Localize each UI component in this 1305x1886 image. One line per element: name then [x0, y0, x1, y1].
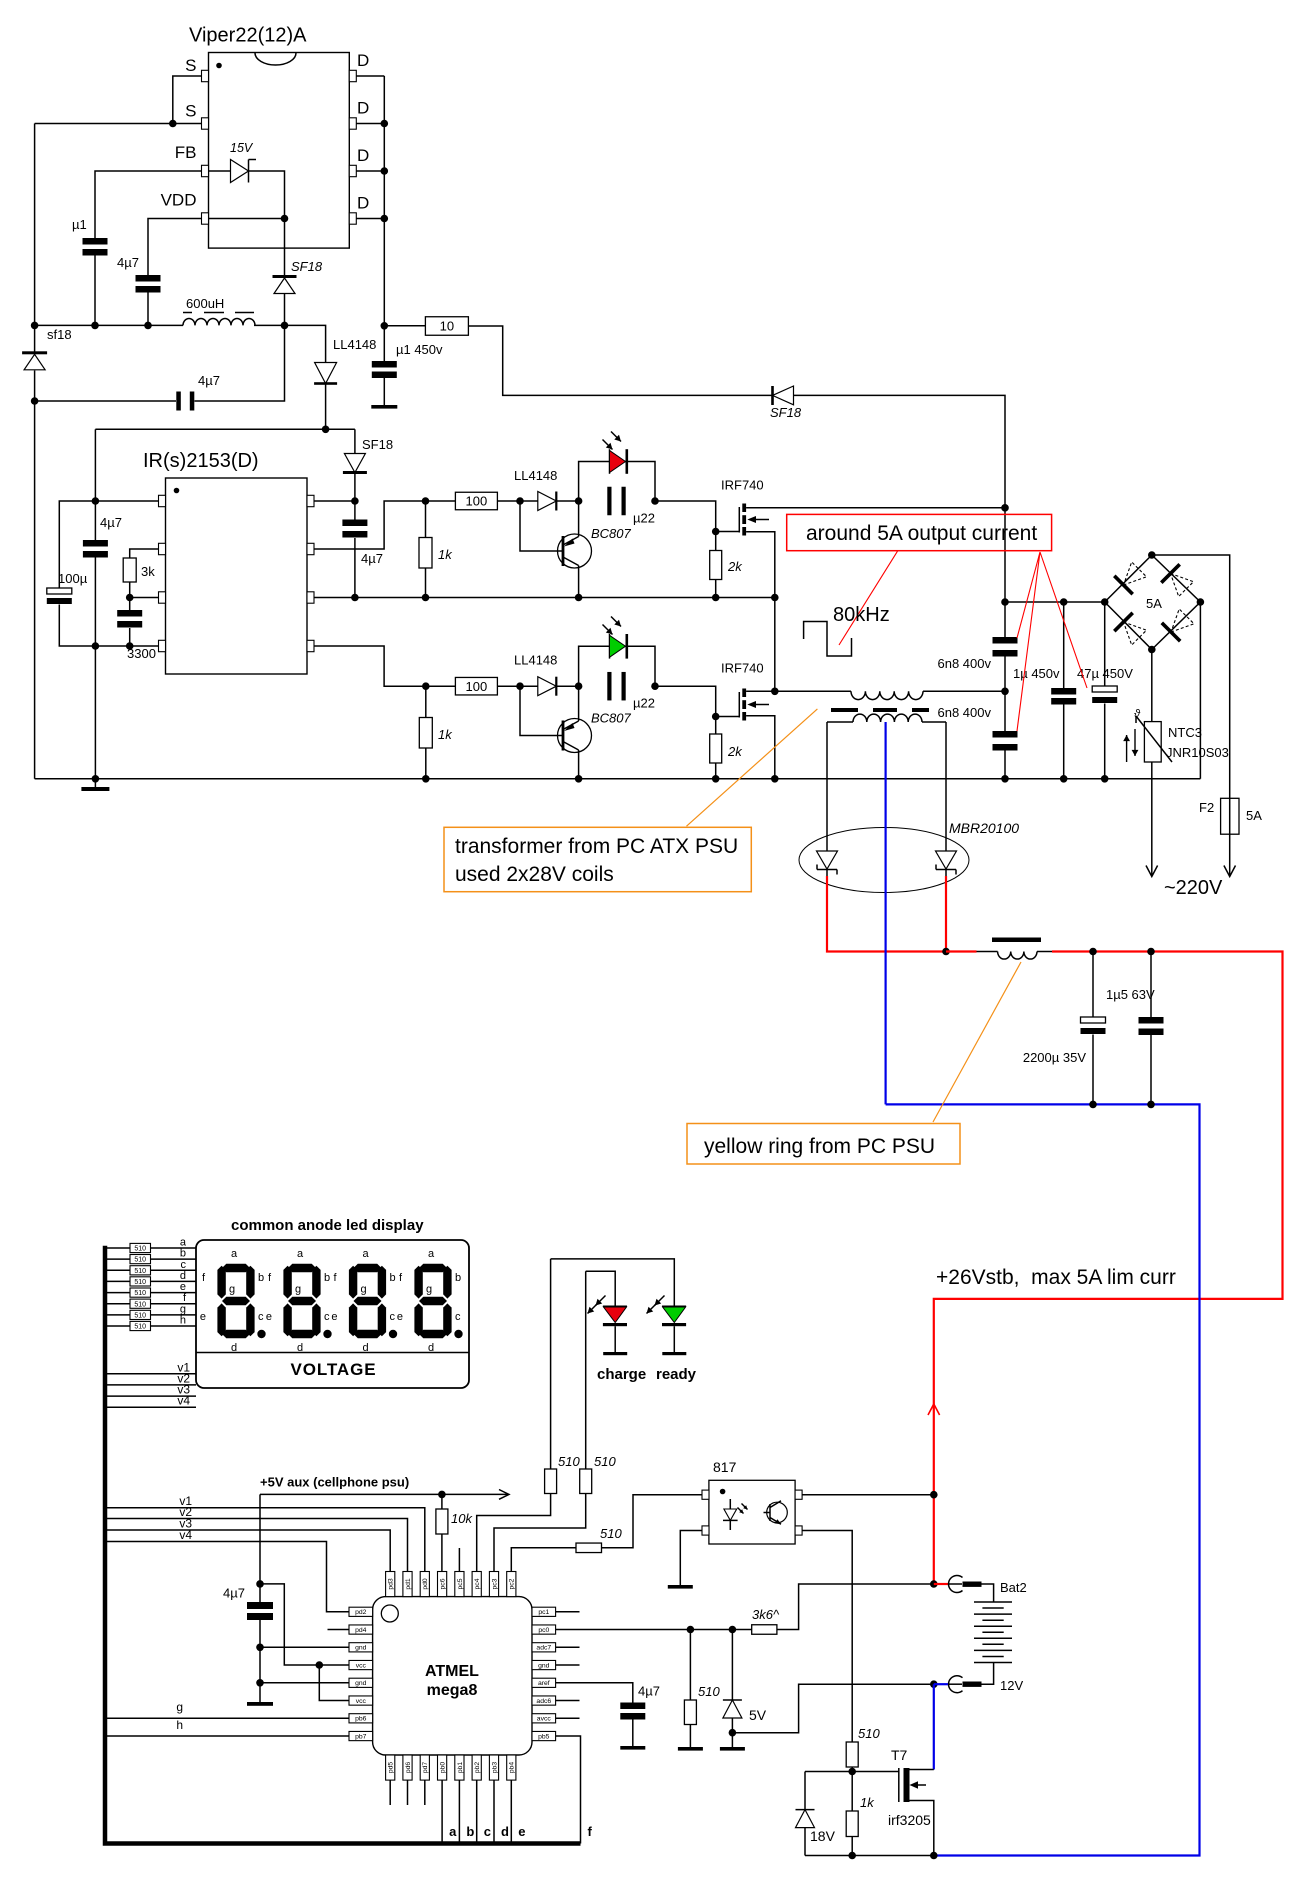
svg-text:d: d — [297, 1342, 303, 1354]
svg-text:IRF740: IRF740 — [721, 478, 764, 493]
svg-text:yellow ring from PC PSU: yellow ring from PC PSU — [704, 1135, 935, 1158]
7-segment digit 4 — [414, 1264, 462, 1338]
svg-text:f: f — [588, 1824, 593, 1839]
wire 3k to pin3 row — [129, 582, 131, 610]
svg-text:b: b — [390, 1272, 396, 1284]
node ground rail junction — [92, 775, 100, 783]
wire gnd right stub — [556, 1664, 580, 1666]
resistor 510 (segment b) — [105, 1258, 196, 1260]
svg-text:a: a — [428, 1248, 435, 1260]
svg-text:15V: 15V — [230, 141, 254, 155]
svg-text:avcc: avcc — [537, 1716, 552, 1723]
inductor 600uH — [183, 318, 255, 325]
ground symbol (main) — [94, 779, 96, 787]
transistor Q2 BC807 (lower) — [520, 686, 632, 779]
wire g row to pb6 — [105, 1717, 349, 1719]
svg-text:c: c — [324, 1311, 330, 1323]
svg-text:aref: aref — [538, 1680, 550, 1687]
svg-text:100: 100 — [466, 494, 488, 509]
svg-text:2k: 2k — [727, 559, 743, 574]
wire pc1 stub — [556, 1611, 580, 1613]
wire opto cathode to ground — [680, 1531, 702, 1586]
wire pd4 stub — [328, 1629, 350, 1631]
wire T7 source to 0V rail — [910, 1801, 934, 1856]
transistor T7 irf3205 — [888, 1747, 931, 1828]
wire pc2 to 510 horizontal — [511, 1548, 576, 1572]
node base junction upper — [516, 497, 524, 505]
svg-text:510: 510 — [134, 1324, 146, 1331]
bridge rectifier 5A — [1105, 555, 1201, 650]
svg-text:ATMEL: ATMEL — [425, 1663, 479, 1680]
wire HV center column — [1004, 508, 1006, 637]
wire LL4148 to bootstrap row — [325, 385, 327, 430]
svg-text:BC807: BC807 — [591, 526, 632, 541]
wire ready LED feed — [550, 1259, 552, 1469]
wire gnd pin2 — [260, 1682, 349, 1684]
pins of U3 bottom side — [386, 1755, 516, 1780]
svg-text:510: 510 — [134, 1290, 146, 1297]
svg-text:pb3: pb3 — [491, 1762, 498, 1774]
svg-text:510: 510 — [858, 1726, 880, 1741]
wire 510 to pc3 riser — [494, 1494, 586, 1572]
node lower drain junction — [771, 688, 779, 696]
svg-text:vcc: vcc — [356, 1698, 367, 1705]
wire VDD row inside IC — [209, 218, 285, 220]
wire VCC top feed (y=429) — [95, 428, 355, 430]
wire v2 row to pd1 — [105, 1519, 408, 1572]
node S junction — [169, 120, 177, 128]
wire 4u7 to gnd row and ground rail — [94, 558, 96, 779]
wire pb5 to bus (f) — [556, 1736, 581, 1844]
wire pb0-pb4 to bus — [441, 1780, 443, 1843]
wire v1 row to pd0 — [105, 1508, 425, 1572]
svg-text:4µ7: 4µ7 — [223, 1586, 245, 1601]
svg-text:gnd: gnd — [355, 1680, 367, 1687]
IC U3 ATMEL mega8 body — [373, 1597, 532, 1755]
wire NTC to mains arrow — [1151, 762, 1153, 876]
wire v4 row to pd2 — [105, 1542, 349, 1612]
svg-text:VOLTAGE: VOLTAGE — [291, 1360, 377, 1379]
svg-text:µ1 450v: µ1 450v — [396, 342, 443, 357]
svg-text:pc1: pc1 — [538, 1609, 549, 1616]
svg-text:g: g — [361, 1284, 367, 1296]
wire SF18 to pin8 node — [354, 474, 356, 502]
node lower mid junction — [575, 682, 583, 690]
red leader lines from callout — [839, 551, 1087, 731]
wire U2 pin2 (RT) to 3k — [130, 549, 159, 558]
svg-text:~220V: ~220V — [1164, 877, 1223, 899]
wire +26V red to right edge — [934, 952, 1283, 1585]
svg-text:d: d — [180, 1270, 186, 1282]
capacitor 6n8 400v (lower) — [993, 731, 1018, 738]
node rail junctions — [31, 322, 39, 330]
svg-text:T7: T7 — [891, 1747, 908, 1763]
svg-text:1k: 1k — [438, 547, 453, 562]
svg-text:1µ 450v: 1µ 450v — [1013, 666, 1060, 681]
zener diode 5V — [731, 1630, 733, 1701]
node pin4 row junctions — [92, 642, 100, 650]
svg-text:b: b — [455, 1272, 461, 1284]
svg-text:d: d — [231, 1342, 237, 1354]
svg-text:pc0: pc0 — [538, 1627, 549, 1634]
LED D-red (charge indicator top) — [579, 432, 655, 502]
node pin8 junction — [351, 497, 359, 505]
svg-text:5A: 5A — [1146, 596, 1162, 611]
svg-text:ready: ready — [656, 1366, 697, 1383]
resistor 510 (opto drive) — [576, 1543, 602, 1553]
svg-text:5A: 5A — [1246, 808, 1262, 823]
ground below u1 450v — [383, 378, 385, 406]
resistor 510 (charge) — [580, 1469, 592, 1494]
wire SF18 to rail — [284, 294, 286, 326]
wire digit common v4 — [105, 1406, 196, 1408]
svg-text:b: b — [180, 1248, 186, 1260]
wire charge LED feed — [585, 1271, 587, 1469]
resistor 510 (segment g) — [105, 1314, 196, 1316]
7-segment digit 2 — [283, 1264, 331, 1338]
connector 12V - terminal — [934, 1663, 1024, 1694]
diode MBR20100 right (schottky) — [936, 851, 957, 877]
node LED/cap right junction — [651, 497, 659, 505]
transistor Q1 BC807 (upper) — [520, 501, 632, 598]
resistor 510 (segment e) — [105, 1292, 196, 1294]
node HO junction (1k top) — [422, 497, 430, 505]
node gate node lower (2k top) — [712, 713, 720, 721]
wire mu1 cap to rail — [94, 256, 96, 326]
svg-text:NTC3: NTC3 — [1168, 725, 1202, 740]
resistor 100 (upper gate) — [455, 492, 497, 510]
node bridge corners — [1148, 551, 1156, 559]
svg-text:100µ: 100µ — [58, 571, 88, 586]
svg-text:LL4148: LL4148 — [514, 653, 557, 668]
wire U2 pin8 (VB) row — [314, 500, 355, 502]
svg-text:transformer from PC ATX PSU: transformer from PC ATX PSU — [455, 835, 738, 858]
svg-text:µ1: µ1 — [72, 217, 87, 232]
node LED/cap right junction lower — [651, 682, 659, 690]
wire fuse to mains arrow — [1229, 834, 1231, 876]
svg-text:JNR10S03: JNR10S03 — [1166, 745, 1229, 760]
svg-text:a: a — [363, 1248, 370, 1260]
wire U2 pin7 (HO) riser — [314, 501, 426, 549]
svg-text:510: 510 — [594, 1454, 616, 1469]
wire U2 pin3 (CT) row — [130, 597, 159, 599]
wire digit common v1 — [105, 1373, 196, 1375]
svg-text:VDD: VDD — [161, 191, 197, 210]
svg-text:e: e — [266, 1311, 272, 1323]
resistor 3k — [123, 558, 136, 582]
transistor Q4 IRF740 (lower MOSFET) — [721, 661, 769, 721]
wire 0V blue rail — [886, 1104, 1200, 1855]
wire main left rail y=325 — [35, 324, 183, 326]
resistor 10 (snubber) — [384, 325, 425, 327]
wire source lower to ground rail — [746, 716, 775, 779]
wire ground rail (main horizontal) — [35, 778, 1201, 780]
svg-text:Viper22(12)A: Viper22(12)A — [189, 25, 307, 47]
wire 510 to opto anode — [602, 1495, 706, 1548]
capacitor 4u7 (mcu supply) — [259, 1494, 261, 1602]
svg-text:3k6^: 3k6^ — [752, 1607, 780, 1622]
wire U2 pin5 (LO) riser — [314, 646, 426, 686]
svg-text:g: g — [426, 1284, 432, 1296]
wire +V secondary (red) — [827, 876, 946, 952]
svg-text:510: 510 — [600, 1526, 622, 1541]
svg-text:h: h — [176, 1718, 183, 1732]
svg-text:b: b — [466, 1824, 474, 1839]
svg-text:d: d — [428, 1342, 434, 1354]
svg-text:18V: 18V — [810, 1828, 836, 1844]
wire gnd pin1 — [260, 1646, 349, 1648]
svg-text:charge: charge — [597, 1366, 646, 1383]
svg-text:12V: 12V — [1000, 1678, 1023, 1693]
wire vcc pin2 — [319, 1665, 349, 1701]
wire S2 row to left vertical — [35, 123, 202, 125]
svg-text:b: b — [324, 1272, 330, 1284]
wire h row to pb7 — [105, 1735, 349, 1737]
svg-text:1k: 1k — [860, 1795, 875, 1810]
svg-text:a: a — [449, 1824, 457, 1839]
svg-text:LL4148: LL4148 — [333, 337, 376, 352]
svg-text:g: g — [176, 1700, 183, 1714]
wire VS to lower drain — [774, 598, 776, 692]
node VS junction at bootstrap — [351, 594, 359, 602]
svg-text:pb5: pb5 — [538, 1733, 550, 1740]
svg-text:µ22: µ22 — [633, 696, 655, 711]
svg-text:vcc: vcc — [356, 1662, 367, 1669]
diode SF18 (VDD rail) — [273, 275, 297, 278]
wire HV top rail to bridge — [1005, 601, 1105, 603]
svg-text:pb4: pb4 — [509, 1762, 516, 1774]
capacitor 100u (electrolytic) — [47, 588, 72, 594]
capacitor mu1 (FB) — [83, 238, 108, 245]
callout box: yellow ring from PC PSU (orange) — [687, 1124, 960, 1165]
node blue rail junctions — [1089, 1101, 1097, 1109]
svg-text:d: d — [363, 1342, 369, 1354]
wire 12V node down to T7 drain (blue) — [933, 1684, 935, 1769]
wire vcc feed — [260, 1584, 349, 1665]
svg-text:pb1: pb1 — [457, 1762, 464, 1774]
wire pc5 stub — [458, 1548, 460, 1572]
pins of U3 right side — [532, 1607, 556, 1740]
resistor 1k (lower) — [425, 686, 427, 717]
resistor 2k (upper gate-source) — [715, 532, 717, 551]
wire gate node row — [805, 1771, 899, 1773]
svg-text:pd2: pd2 — [355, 1609, 367, 1616]
resistor 510 (gate feed) — [846, 1742, 858, 1767]
resistor 2k (lower gate-source) — [715, 717, 717, 735]
svg-text:adc6: adc6 — [536, 1698, 551, 1705]
svg-text:IR(s)2153(D): IR(s)2153(D) — [143, 450, 259, 472]
wire 4u7 to rail — [147, 293, 149, 326]
svg-text:pc4: pc4 — [474, 1578, 481, 1589]
svg-text:10k: 10k — [451, 1511, 473, 1526]
wire drain upper to HV bus — [746, 507, 1005, 509]
node LL4148 junction — [322, 426, 330, 434]
wire digit common v3 — [105, 1395, 196, 1397]
node output cap junctions (red rail) — [1089, 948, 1097, 956]
wire U2 pin6 (VS) rail — [314, 597, 775, 599]
svg-text:d: d — [501, 1824, 509, 1839]
resistor 1k (upper) — [425, 501, 427, 538]
capacitor 4u7 (VDD) — [136, 275, 161, 282]
svg-text:6n8 400v: 6n8 400v — [938, 656, 992, 671]
svg-text:D: D — [357, 99, 369, 118]
wire bridge right corner down to rail — [1199, 602, 1201, 779]
svg-text:4µ7: 4µ7 — [117, 255, 139, 270]
wire drain lower — [746, 690, 775, 692]
wire gate feed lower — [655, 686, 739, 716]
svg-text:510: 510 — [698, 1684, 720, 1699]
svg-text:2k: 2k — [727, 744, 743, 759]
wire 10 to SF18-h — [468, 326, 772, 395]
resistor 510 (ready) — [545, 1469, 557, 1494]
resistor 1k (gate-source) — [851, 1772, 853, 1812]
wire pc0 row — [556, 1629, 752, 1631]
svg-text:4µ7: 4µ7 — [198, 373, 220, 388]
svg-text:4µ7: 4µ7 — [361, 551, 383, 566]
wire U2 pin1 (VCC) row — [59, 501, 158, 588]
wire zener node to 12V rail — [732, 1684, 933, 1733]
wire S1 pin to S2 junction — [173, 76, 202, 124]
7-segment digit 3 — [349, 1264, 397, 1338]
svg-text:510: 510 — [134, 1257, 146, 1264]
node LO junction (1k top) — [422, 682, 430, 690]
svg-text:1µ5 63V: 1µ5 63V — [1106, 987, 1155, 1002]
svg-text:common anode led display: common anode led display — [231, 1217, 424, 1234]
svg-text:LL4148: LL4148 — [514, 468, 557, 483]
orange leader to yellow ring inductor — [933, 962, 1021, 1122]
node vcc junction — [316, 1661, 324, 1669]
svg-text:+5V aux (cellphone psu): +5V aux (cellphone psu) — [260, 1475, 409, 1490]
svg-text:v4: v4 — [177, 1394, 190, 1408]
svg-text:IRF740: IRF740 — [721, 661, 764, 676]
diode SF18 (snubber, horizontal pointing left) — [771, 386, 774, 405]
wire SF18 to HV bus — [794, 395, 1006, 507]
wire bottom local rail — [805, 1855, 934, 1857]
wire bootstrap cap to VS rail — [354, 538, 356, 598]
wire left vertical to ground rail — [34, 401, 36, 779]
svg-text:pd1: pd1 — [405, 1578, 412, 1590]
svg-text:510: 510 — [134, 1268, 146, 1275]
battery Bat2 cells — [974, 1602, 1012, 1663]
svg-text:SF18: SF18 — [291, 259, 323, 274]
svg-text:pd4: pd4 — [355, 1627, 367, 1634]
svg-text:817: 817 — [713, 1459, 737, 1475]
svg-text:c: c — [258, 1311, 264, 1323]
transistor Q3 IRF740 (upper MOSFET) — [721, 478, 769, 536]
wire 3k6 to Bat2+ — [777, 1584, 934, 1630]
wire opto collector to battery+ rail — [802, 1494, 934, 1496]
wire secondary right leg — [945, 722, 947, 851]
wire avcc stub — [556, 1717, 580, 1719]
callout box: around 5A output current (red) — [787, 514, 1052, 550]
label 80kHz and waveform — [804, 604, 890, 656]
node base junction lower — [516, 682, 524, 690]
svg-text:D: D — [357, 194, 369, 213]
bus thick vertical (display common) — [105, 1246, 581, 1844]
svg-text:c: c — [484, 1824, 491, 1839]
resistor 3k6^ — [752, 1625, 777, 1635]
wire 100u to pin4 row — [59, 605, 158, 647]
svg-text:510: 510 — [134, 1279, 146, 1286]
wire 15V diode to VDD riser — [249, 171, 285, 275]
inductor L-out (yellow ring) — [977, 951, 998, 953]
resistor 510 (pc0 divider) — [689, 1630, 691, 1701]
wire bottom stubs pd5-pd7 — [389, 1780, 391, 1805]
capacitor 2200u 35V — [1092, 952, 1094, 1018]
pins of U3 left side — [349, 1607, 373, 1740]
wire 3300 to pin4 row — [129, 628, 131, 646]
capacitor 1u5 63V — [1150, 952, 1152, 1018]
resistor 510 (segment f) — [105, 1303, 196, 1305]
svg-text:adc7: adc7 — [536, 1645, 551, 1652]
wire adc7 stub — [556, 1646, 580, 1648]
inrush arrows at NTC — [1126, 735, 1128, 762]
diode SF18 (bootstrap) — [354, 429, 356, 453]
node D column to 10ohm — [381, 322, 389, 330]
svg-text:pd0: pd0 — [422, 1578, 429, 1590]
svg-text:+26Vstb, max 5A lim curr: +26Vstb, max 5A lim curr — [936, 1266, 1176, 1289]
svg-text:S: S — [185, 102, 196, 121]
svg-text:pd3: pd3 — [388, 1578, 395, 1590]
svg-text:sf18: sf18 — [47, 327, 72, 342]
capacitor u22 (lower) — [607, 672, 611, 701]
pins of U3 top side — [386, 1572, 516, 1597]
svg-text:80kHz: 80kHz — [833, 604, 890, 626]
resistor 510 (segment h) — [105, 1325, 196, 1327]
svg-text:g: g — [229, 1284, 235, 1296]
optocoupler U4 817 — [702, 1459, 802, 1544]
node 5V zener junction — [729, 1729, 737, 1737]
diode D-15V zener inside U1 (FB-VDD) — [209, 170, 231, 172]
svg-text:100: 100 — [466, 679, 488, 694]
wire gate feed upper — [655, 501, 739, 532]
node 10k top — [438, 1491, 446, 1499]
IC U2 IR(s)2153(D) body — [143, 450, 307, 674]
wire source upper to VS — [746, 532, 775, 598]
wire adc6 stub — [556, 1700, 580, 1702]
wire 10k to pc6 — [441, 1534, 443, 1572]
LED D-green (ready indicator top) — [579, 617, 655, 687]
svg-text:510: 510 — [134, 1246, 146, 1253]
node gate node upper (2k top) — [712, 528, 720, 536]
svg-text:a: a — [297, 1248, 304, 1260]
svg-text:S: S — [185, 56, 196, 75]
svg-text:pd5: pd5 — [388, 1762, 395, 1774]
svg-text:510: 510 — [134, 1301, 146, 1308]
node left 401 — [31, 397, 39, 405]
transformer T1 core — [831, 708, 929, 712]
svg-text:pd7: pd7 — [422, 1762, 429, 1774]
LED charge (red) — [586, 1271, 628, 1355]
svg-text:FB: FB — [175, 143, 197, 162]
resistor 510 (segment c) — [105, 1269, 196, 1271]
node HV column junctions — [1001, 504, 1009, 512]
svg-text:pb6: pb6 — [355, 1716, 367, 1723]
IC U1 Viper22(12)A body — [189, 25, 349, 249]
svg-text:pb2: pb2 — [474, 1762, 481, 1774]
connector Bat2 + terminal — [930, 1575, 1027, 1602]
svg-text:irf3205: irf3205 — [888, 1812, 931, 1828]
wire VDD pin to 4u7 branch — [148, 219, 202, 276]
node D junctions — [381, 120, 389, 128]
wire v3 row to pd3 — [105, 1530, 390, 1572]
svg-text:e: e — [331, 1311, 337, 1323]
svg-text:10: 10 — [440, 319, 454, 334]
node pc0 junctions — [687, 1626, 695, 1634]
red arrow on +26V feed — [928, 1404, 940, 1415]
LED ready (green) — [551, 1259, 687, 1355]
rectifier MBR20100 ellipse — [799, 828, 969, 893]
